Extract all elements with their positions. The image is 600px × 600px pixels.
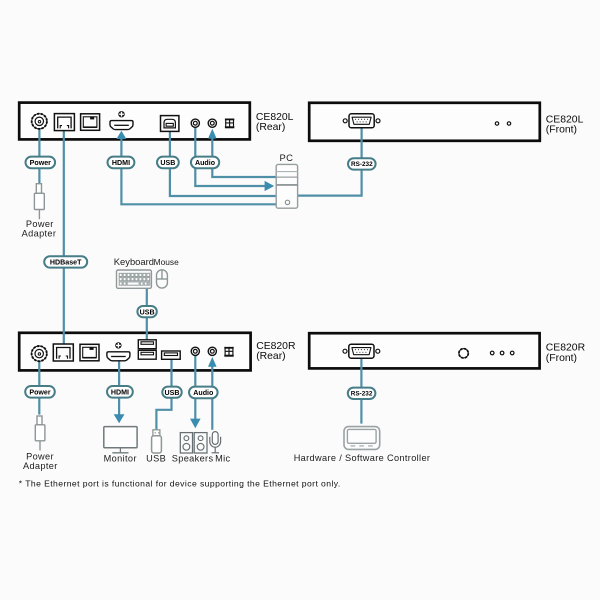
dual USB-A ports (CE820R rear) [138,340,156,359]
arrow down to speakers [190,419,201,429]
label HDBaseT [44,256,87,267]
LED 3 (CE820R front) [510,351,514,355]
arrow up into HDMI port (top box) [116,131,126,139]
arrow up into audio port (top box) [208,129,217,139]
wire HDBaseT link [63,131,65,345]
arrow down to monitor [114,414,125,423]
svg-text:PC: PC [280,152,294,163]
svg-text:Adapter: Adapter [23,461,58,471]
text CE820L (Front) [546,114,584,135]
Ethernet port (CE820L rear) [81,114,100,131]
arrow up into audio port (bottom box) [208,357,217,367]
svg-text:RS-232: RS-232 [351,391,373,398]
label Audio (top) [191,157,219,169]
USB-B port (CE820L rear) [161,116,179,132]
svg-text:USB: USB [146,454,166,464]
svg-text:(Front): (Front) [546,125,577,136]
label RS-232 (bottom) [348,388,376,399]
terminal block (CE820L rear) [225,119,234,129]
svg-text:Power: Power [26,452,54,462]
svg-text:Audio: Audio [193,389,214,397]
svg-text:Monitor: Monitor [104,454,137,464]
LED 2 (CE820R front) [500,351,504,355]
wire audio 1 to PC [195,128,265,187]
text CE820R (Front) [546,343,586,364]
USB drive icon [152,430,162,453]
PC tower [276,164,297,208]
DC power jack (CE820R rear) [32,346,47,361]
HDMI port (CE820L rear) [110,111,133,130]
power adapter (top) [34,184,44,220]
speakers icon [180,433,207,453]
controller icon [344,427,380,450]
svg-text:RS-232: RS-232 [351,161,373,168]
svg-text:(Rear): (Rear) [256,351,285,362]
svg-text:* The Ethernet port is functio: * The Ethernet port is functional for de… [19,479,341,489]
microphone icon [210,432,221,453]
single USB-A port (CE820R rear) [162,351,181,359]
wire HDMI to PC [121,137,276,205]
monitor icon [104,427,137,453]
svg-text:USB: USB [140,308,155,316]
device box CE820L (Rear) [19,103,250,140]
terminal block (CE820R rear) [224,347,233,357]
audio jack 1 (CE820R rear) [191,347,199,355]
RJ45 HDBaseT port (CE820R rear) [53,344,73,361]
label USB (middle) [137,306,156,317]
wire power (bottom) [38,362,40,415]
svg-text:Power: Power [29,388,51,396]
LED 2 (CE820L front) [507,122,510,125]
label USB (top) [157,157,179,169]
svg-text:HDBaseT: HDBaseT [50,259,82,267]
svg-text:Hardware / Software Controller: Hardware / Software Controller [294,453,431,463]
wire keyboard/mouse USB [146,289,148,340]
DB9 serial port (CE820L front) [343,114,380,128]
mouse icon [157,270,168,288]
text Power Adapter (top) [22,219,57,239]
device box CE820R (Rear) [19,333,250,371]
label USB (bottom) [162,387,181,398]
Ethernet port (CE820R rear) [80,344,99,361]
RJ45 HDBaseT port (CE820L rear) [54,114,74,131]
arrow into PC [265,181,275,191]
label RS-232 (top) [348,158,376,169]
label Power (bottom) [25,386,55,398]
audio jack 1 (CE820L rear) [191,119,199,127]
label Audio (bottom) [189,387,218,399]
svg-text:Audio: Audio [195,159,216,167]
svg-text:Power: Power [26,219,54,229]
wire audio 2 to PC [212,137,276,177]
text Power Adapter (bottom) [23,452,58,472]
label Power (top) [26,157,56,169]
svg-text:Mic: Mic [215,454,230,464]
wire mic to audio-in [211,366,213,430]
audio jack 2 (CE820L rear) [208,119,216,127]
svg-text:HDMI: HDMI [112,159,130,167]
svg-text:Power: Power [30,159,52,167]
svg-text:(Rear): (Rear) [256,122,285,133]
text CE820R (Rear) [256,341,296,362]
keyboard icon [117,270,152,288]
label HDMI (top) [108,157,135,169]
wire power (top) [38,130,40,184]
wire RS-232 to PC [298,128,362,196]
device box CE820R (Front) [309,333,539,368]
DB9 serial port (CE820R front) [343,344,380,358]
text CE820L (Rear) [256,112,294,133]
svg-text:USB: USB [165,389,180,397]
wire USB to USB device [156,360,171,430]
power adapter (bottom) [35,416,45,451]
svg-text:USB: USB [160,159,175,167]
device box CE820L (Front) [309,103,540,141]
LED 1 (CE820L front) [495,122,498,125]
audio jack 2 (CE820R rear) [208,347,216,355]
LED 1 (CE820R front) [490,351,494,355]
svg-text:Speakers: Speakers [172,454,214,464]
label HDMI (bottom) [107,386,133,398]
wire HDMI to monitor [118,360,120,415]
svg-text:Keyboard: Keyboard [114,256,154,267]
DC power jack (CE820L rear) [32,114,47,129]
wire audio to speakers [194,356,196,420]
svg-text:(Front): (Front) [546,353,577,364]
svg-text:HDMI: HDMI [111,388,129,396]
svg-text:Mouse: Mouse [154,257,179,267]
button (CE820R front) [459,349,468,358]
svg-text:Adapter: Adapter [22,228,57,238]
HDMI port (CE820R rear) [107,342,130,361]
wire RS-232 to controller [360,358,362,423]
wire USB to PC [170,132,276,196]
